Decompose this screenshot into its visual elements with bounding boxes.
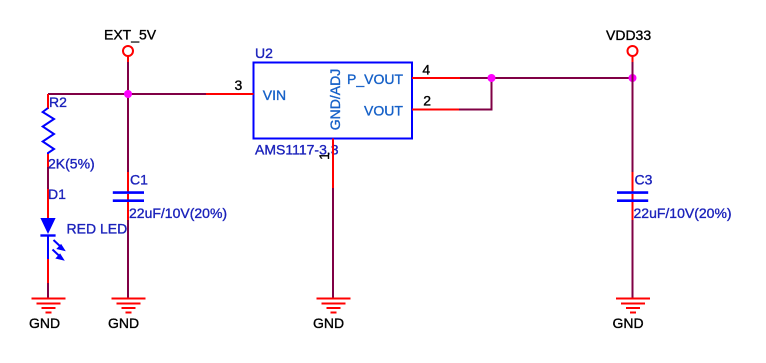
svg-text:4: 4 xyxy=(422,62,430,78)
D1 emission arrow 1 xyxy=(54,240,66,251)
svg-text:GND: GND xyxy=(613,315,644,331)
wire C1 to ground xyxy=(127,220,129,298)
svg-text:GND: GND xyxy=(108,315,139,331)
svg-text:VOUT: VOUT xyxy=(364,103,403,119)
svg-text:GND/ADJ: GND/ADJ xyxy=(327,69,343,130)
svg-text:RED LED: RED LED xyxy=(67,221,128,237)
svg-text:2K(5%): 2K(5%) xyxy=(48,156,95,172)
capacitor C1 xyxy=(113,172,144,220)
svg-text:VIN: VIN xyxy=(263,87,286,103)
junction node EXT_5V xyxy=(124,90,132,98)
ground symbol 1 xyxy=(32,299,66,313)
pin 3 VIN xyxy=(206,93,254,95)
wire VDD33 vertical xyxy=(632,62,634,173)
diode D1 red LED xyxy=(40,189,55,283)
wire pin4 to VDD33 xyxy=(460,77,633,79)
svg-text:U2: U2 xyxy=(255,45,273,61)
resistor R2 xyxy=(43,94,54,167)
svg-text:GND: GND xyxy=(29,315,60,331)
ground symbol 3 xyxy=(317,299,351,313)
wire pin2 riser xyxy=(459,78,492,110)
svg-text:1: 1 xyxy=(316,152,332,160)
power port circle VDD33 xyxy=(628,46,638,63)
capacitor C3 xyxy=(617,172,648,220)
ground symbol 2 xyxy=(112,299,146,313)
regulator U2 body xyxy=(254,63,413,139)
svg-text:D1: D1 xyxy=(48,186,66,202)
svg-text:3: 3 xyxy=(235,77,243,93)
svg-text:2: 2 xyxy=(423,93,431,109)
pin 1 GND/ADJ stub xyxy=(332,139,334,189)
wire U2 pin1 to ground xyxy=(332,188,334,298)
junction node pin2/pin4 xyxy=(488,74,496,82)
pin 2 VOUT xyxy=(412,109,460,111)
pin 4 P_VOUT xyxy=(412,77,461,79)
svg-text:22uF/10V(20%): 22uF/10V(20%) xyxy=(634,205,732,221)
power port circle EXT_5V xyxy=(123,46,133,63)
svg-text:C1: C1 xyxy=(130,172,148,188)
svg-text:GND: GND xyxy=(313,315,344,331)
svg-text:C3: C3 xyxy=(635,172,653,188)
svg-text:VDD33: VDD33 xyxy=(606,27,651,43)
ground symbol 4 xyxy=(616,299,650,313)
wire EXT_5V vertical xyxy=(127,62,129,173)
svg-text:EXT_5V: EXT_5V xyxy=(104,27,157,43)
wire main horizontal xyxy=(48,93,206,95)
wire R2 to D1 xyxy=(47,167,49,190)
svg-text:P_VOUT: P_VOUT xyxy=(347,71,403,87)
wire D1 to ground xyxy=(47,283,49,298)
D1 emission arrow 2 xyxy=(53,250,65,261)
svg-text:R2: R2 xyxy=(49,94,67,110)
svg-text:22uF/10V(20%): 22uF/10V(20%) xyxy=(129,205,227,221)
wire C3 to ground xyxy=(632,220,634,298)
junction node VDD33 xyxy=(629,74,637,82)
